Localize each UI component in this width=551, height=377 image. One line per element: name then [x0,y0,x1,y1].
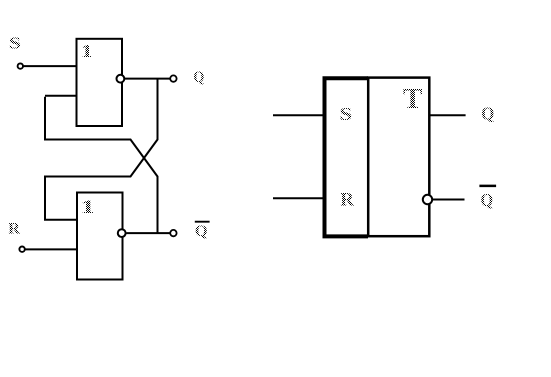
svg-text:T: T [403,83,422,115]
svg-text:S: S [9,34,21,53]
svg-text:Q: Q [193,69,204,86]
svg-text:R: R [340,190,354,211]
svg-text:S: S [339,104,352,124]
svg-text:Q: Q [195,223,208,240]
svg-text:1: 1 [80,197,95,218]
svg-text:R: R [8,221,20,238]
svg-text:1: 1 [81,41,94,61]
svg-text:Q: Q [481,104,494,124]
svg-text:Q: Q [481,190,494,210]
